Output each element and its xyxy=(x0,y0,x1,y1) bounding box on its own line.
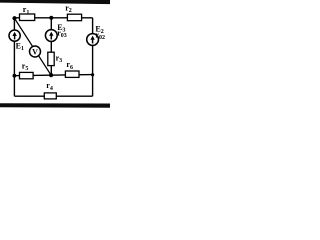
node B (middle junction) xyxy=(49,73,53,77)
node left-middle junction xyxy=(13,74,17,78)
source E3 xyxy=(45,23,66,42)
wire top xyxy=(14,17,92,19)
resistor r6 xyxy=(65,60,79,77)
resistor r1 xyxy=(20,5,35,20)
resistor r4 xyxy=(44,81,56,99)
resistor r5 xyxy=(20,62,34,79)
wire diagonal voltmeter branch xyxy=(14,18,51,75)
svg-text:V: V xyxy=(32,48,38,57)
resistor r3 xyxy=(48,52,62,65)
source E2 xyxy=(87,25,105,46)
wire bottom xyxy=(14,95,92,97)
source E1 xyxy=(9,30,24,52)
wire right rail xyxy=(92,18,94,96)
voltmeter V xyxy=(30,46,41,57)
node T (top-middle junction) xyxy=(49,16,53,20)
wire E3 branch xyxy=(50,18,52,75)
wire left rail xyxy=(13,18,15,96)
wire middle xyxy=(14,75,92,76)
node A (top-left junction) xyxy=(12,16,16,20)
resistor r2 xyxy=(65,3,81,20)
node right-middle junction xyxy=(91,73,94,76)
